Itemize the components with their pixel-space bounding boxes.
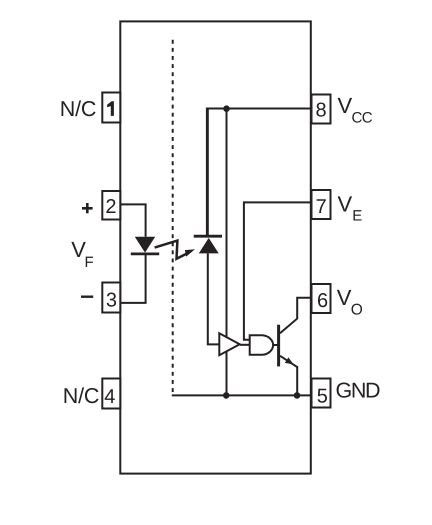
transistor Q1 [279, 325, 298, 367]
pin 6 box [312, 284, 331, 313]
pin 3 box [102, 283, 120, 313]
pin 7 box [312, 190, 331, 219]
svg-text:E: E [352, 207, 362, 224]
svg-text:6: 6 [317, 290, 328, 312]
LED D1 (emitter diode) [131, 237, 159, 254]
svg-text:4: 4 [104, 386, 115, 408]
svg-text:N/C: N/C [60, 97, 96, 121]
wire GND rail to pin 5 [172, 394, 311, 396]
op-amp U1 (amplifier triangle) [219, 333, 239, 355]
svg-text:V: V [338, 93, 353, 118]
wire VCC to amplifier top [226, 109, 228, 341]
svg-text:N/C: N/C [63, 384, 99, 408]
pin 1 box [102, 93, 120, 123]
wire transistor emitter to GND rail [296, 366, 298, 395]
svg-text:CC: CC [352, 110, 373, 127]
junction GND emitter node [294, 392, 301, 399]
svg-text:7: 7 [316, 196, 327, 218]
photodiode D2 [194, 236, 222, 253]
svg-text:5: 5 [317, 385, 328, 407]
svg-text:8: 8 [315, 100, 326, 122]
pin 5 box [312, 379, 331, 408]
isolation barrier dashed line [172, 40, 174, 395]
light emission arrow [155, 241, 195, 259]
junction VCC rail node [223, 105, 230, 112]
pin 4 box [102, 379, 120, 409]
svg-text:V: V [337, 285, 352, 310]
wire pin 2 to LED anode [121, 204, 146, 236]
wire transistor collector to pin 6 [280, 298, 311, 334]
IC body outline [120, 21, 310, 473]
pin 1 number [107, 101, 114, 116]
svg-text:3: 3 [106, 290, 117, 312]
wire photodiode cathode to VCC rail [207, 109, 209, 237]
wire LED cathode to pin 3 [121, 254, 146, 303]
label - (cathode) [81, 296, 93, 298]
svg-text:V: V [338, 191, 353, 216]
wire photodiode anode to amplifier input [208, 253, 220, 344]
gate U2 (AND gate / detector) [250, 335, 273, 355]
wire gate output to transistor base [274, 344, 279, 346]
pin 8 box [312, 95, 331, 124]
svg-text:F: F [85, 254, 94, 271]
svg-text:GND: GND [336, 379, 380, 403]
wire VCC rail to pin 8 [207, 109, 311, 237]
wire VE from pin 7 to gate input [244, 202, 311, 339]
svg-text:O: O [351, 302, 363, 319]
junction GND amplifier node [223, 392, 230, 399]
label + (anode) [82, 203, 93, 213]
wire amplifier ground to GND rail [226, 350, 228, 395]
svg-text:2: 2 [105, 196, 116, 218]
wire amplifier output to gate input [240, 344, 251, 346]
pin 2 box [102, 191, 120, 220]
